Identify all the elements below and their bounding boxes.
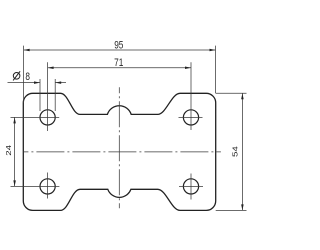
dimension 54: extension line bottom [216,209,247,211]
dimension dia8: arrow pointing right [34,81,40,84]
dimension 95: dimension line [24,49,216,51]
dimension 24: arrow down [13,180,16,186]
hole bottom-right [183,179,198,194]
crosshair horizontal top-right hole [179,116,203,118]
dimension 95: extension line right [215,46,217,94]
crosshair vertical top-left hole / extension for dim 71 [47,62,49,131]
dimension 71: arrow left [48,67,54,70]
dimension dia8: extension line right tangent [54,79,56,111]
crosshair vertical bottom-right hole [190,174,192,200]
svg-text:71: 71 [114,57,123,69]
svg-text:54: 54 [230,146,239,157]
hole bottom-left [40,179,55,194]
dimension 54: extension line top [216,92,247,94]
crosshair horizontal top-left hole / extension for dim 24 [11,116,60,118]
dimension 71: dimension line [48,67,191,69]
dimension 95: arrow right [210,49,216,52]
crosshair horizontal bottom-left hole / extension for dim 24 [11,185,60,187]
dimension 71: arrow right [185,67,191,70]
plate outline (mounting plate top view) [23,93,215,210]
centerline vertical (dash-dot) [118,87,120,208]
crosshair vertical top-right hole / extension for dim 71 [190,62,192,130]
dimension 24: dimension line [14,117,16,186]
svg-text:24: 24 [4,145,13,156]
dimension 95: extension line left [23,46,25,103]
svg-text:8: 8 [25,71,30,83]
crosshair vertical bottom-left hole [47,173,49,199]
hole top-right [183,110,198,125]
svg-text:95: 95 [114,40,123,52]
dimension dia8: dimension line left part [8,82,41,84]
dimension dia8: diameter symbol [13,71,20,80]
dimension 54: arrow up [241,93,244,99]
dimension 54: arrow down [241,204,244,210]
dimension dia8: dimension line right part [55,82,66,84]
dimension 54: dimension line [241,93,243,210]
dimension dia8: extension line left tangent [39,79,41,111]
dimension 95: arrow left [24,49,30,52]
dimension 24: arrow up [13,117,16,123]
hole top-left [40,110,55,125]
centerline horizontal (dash-dot) [23,151,221,153]
dimension dia8: arrow pointing left [55,81,61,84]
crosshair horizontal bottom-right hole [179,185,203,187]
